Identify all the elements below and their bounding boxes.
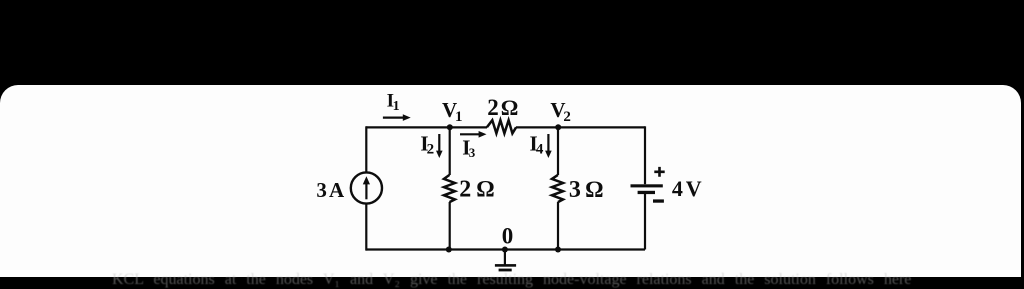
current source arrow (up)	[363, 176, 370, 199]
wire V1 branch upper	[449, 127, 451, 175]
label I3	[462, 136, 476, 161]
svg-text:Ω: Ω	[585, 177, 603, 202]
label 4V battery value	[672, 176, 702, 201]
battery minus sign	[653, 199, 664, 202]
wire left vertical lower	[365, 204, 367, 251]
wire V2 branch lower	[557, 202, 559, 250]
battery short plate (-)	[638, 191, 655, 194]
arrow I4 (down)	[545, 134, 552, 158]
label V1	[442, 98, 463, 125]
label 3A source value	[316, 178, 345, 202]
node dot V2	[555, 124, 561, 130]
svg-text:2: 2	[563, 109, 571, 125]
label 3ohm vertical resistor	[569, 177, 604, 203]
svg-text:0: 0	[502, 224, 514, 249]
resistor 3ohm vertical (V2 branch)	[552, 175, 563, 202]
svg-text:Ω: Ω	[501, 95, 519, 120]
label 2ohm vertical resistor	[459, 177, 494, 203]
label I2	[420, 131, 434, 157]
wire top-left horizontal	[366, 126, 487, 128]
battery V1=4V long plate (+)	[631, 184, 663, 187]
resistor 2ohm vertical (V1 branch)	[444, 175, 455, 202]
svg-text:2: 2	[459, 177, 471, 203]
ground stub wire	[504, 250, 506, 265]
wire bottom horizontal	[366, 248, 645, 250]
wire right vertical lower	[644, 194, 646, 250]
svg-text:1: 1	[455, 109, 463, 125]
label I1	[387, 91, 400, 115]
svg-text:2: 2	[427, 142, 435, 158]
wire right vertical upper	[644, 126, 646, 184]
ground bar long	[495, 264, 516, 267]
current source I=3A circle	[351, 172, 382, 203]
wire left vertical upper	[365, 126, 367, 172]
label I4	[530, 131, 544, 157]
node dot V1	[447, 124, 453, 130]
ground bar short	[499, 269, 512, 272]
svg-text:4: 4	[672, 176, 683, 201]
svg-text:1: 1	[393, 99, 400, 114]
svg-text:2: 2	[487, 95, 499, 120]
label node 0 (ground)	[502, 224, 514, 249]
wire V1 branch lower	[449, 202, 451, 250]
arrow I1 (right)	[383, 114, 411, 121]
wire V2 branch upper	[557, 127, 559, 175]
svg-text:4: 4	[536, 142, 544, 158]
label 2ohm top	[487, 95, 518, 120]
label V2	[550, 98, 571, 125]
svg-text:V: V	[686, 176, 702, 201]
arrow I2 (down)	[436, 134, 443, 158]
svg-text:Ω: Ω	[476, 177, 494, 202]
svg-text:3: 3	[469, 145, 476, 160]
svg-text:3: 3	[316, 178, 327, 202]
faint cut-off text line at bottom	[112, 271, 952, 289]
node dot ground	[502, 247, 508, 253]
node dot bottom right	[555, 247, 561, 253]
arrow I3 (right)	[460, 131, 487, 138]
node dot bottom left	[446, 247, 452, 253]
white slide card	[0, 85, 1021, 277]
svg-text:3: 3	[569, 177, 581, 203]
battery plus sign	[654, 167, 664, 177]
svg-text:A: A	[329, 178, 345, 202]
resistor 2ohm horizontal (top)	[487, 120, 516, 133]
wire top-right horizontal	[516, 126, 645, 128]
